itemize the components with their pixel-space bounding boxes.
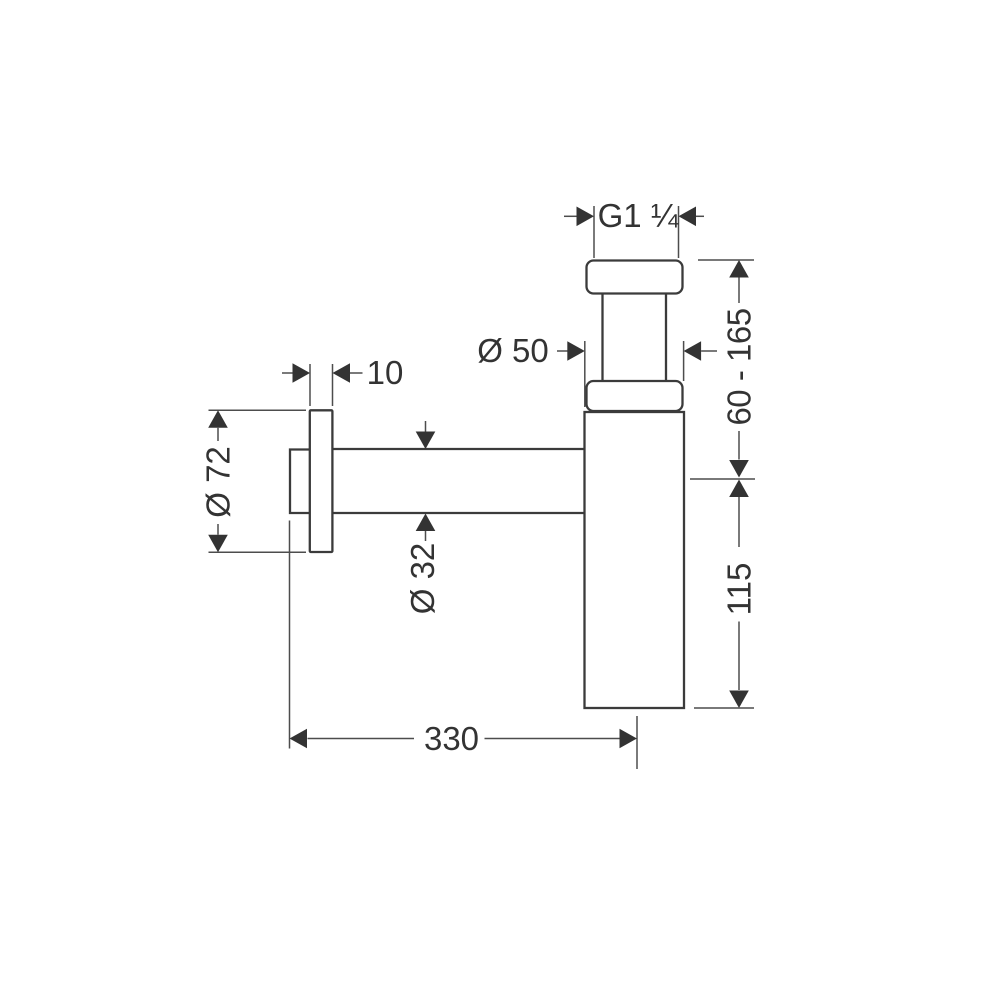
svg-text:115: 115 — [721, 563, 758, 616]
svg-text:G1 ¼: G1 ¼ — [598, 197, 679, 234]
svg-text:10: 10 — [367, 354, 404, 391]
svg-text:Ø 32: Ø 32 — [404, 543, 441, 615]
svg-text:Ø 50: Ø 50 — [477, 332, 549, 369]
svg-text:Ø 72: Ø 72 — [200, 446, 237, 518]
svg-text:330: 330 — [424, 720, 479, 757]
svg-text:60 - 165: 60 - 165 — [721, 308, 758, 425]
